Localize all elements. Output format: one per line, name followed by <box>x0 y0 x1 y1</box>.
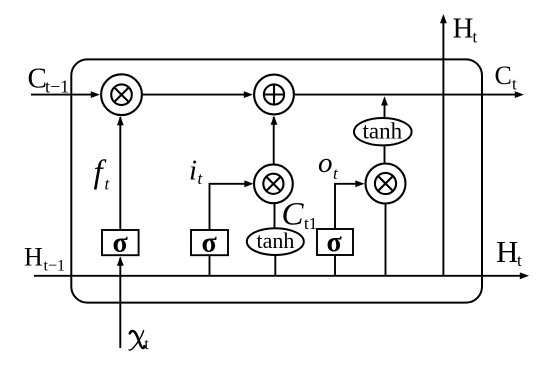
arrowhead up to C line <box>381 96 388 105</box>
wire H-line bottom <box>34 275 521 277</box>
arrowhead into multiply node X3 <box>355 180 364 187</box>
svg-text:t: t <box>333 164 339 183</box>
svg-text:t−1: t−1 <box>45 76 69 96</box>
svg-text:σ: σ <box>202 227 218 258</box>
arrowhead H t top <box>440 14 447 23</box>
arrowhead into add node bottom <box>271 116 278 125</box>
node x t label <box>130 331 145 348</box>
wire tanh low to H line <box>274 256 276 276</box>
svg-text:t−1: t−1 <box>44 258 65 275</box>
wire X3 up to tanh upper <box>384 145 386 163</box>
svg-text:H: H <box>453 12 474 44</box>
wire x t input vertical <box>119 258 121 349</box>
svg-text:t: t <box>517 251 522 270</box>
wire C-line output segment <box>295 94 516 96</box>
wire X2 up to add node <box>273 117 275 164</box>
multiply node X1 (forget gate multiply) <box>101 74 142 115</box>
wire output gate L path <box>335 184 356 229</box>
svg-text:C: C <box>28 63 47 95</box>
svg-text:t: t <box>105 175 111 194</box>
wire H t vertical output line <box>442 22 444 276</box>
wire C-line input segment <box>31 94 92 96</box>
svg-text:H: H <box>24 243 43 272</box>
tanh ellipse upper <box>354 118 412 145</box>
svg-text:t: t <box>144 336 149 353</box>
svg-text:t1: t1 <box>304 214 317 233</box>
wire C-line middle segment <box>143 94 245 96</box>
LSTM cell outer rounded box <box>71 59 482 302</box>
wire sigma3 to H line <box>334 256 336 276</box>
wire sigma2 to H line <box>209 256 211 276</box>
wire input gate L path <box>210 184 246 230</box>
wire tanh upper to C line <box>384 104 386 117</box>
arrowhead into multiply node X2 <box>244 180 253 187</box>
svg-text:σ: σ <box>113 227 129 258</box>
tanh ellipse lower (candidate) <box>247 228 304 255</box>
arrowhead into sigma box 1 <box>117 257 124 266</box>
arrowhead H t output right <box>520 272 529 279</box>
svg-text:C: C <box>282 197 305 233</box>
svg-text:o: o <box>318 147 333 179</box>
sigma box 3 (output gate) <box>317 229 353 255</box>
svg-text:tanh: tanh <box>363 119 403 144</box>
sigma box 2 (input gate) <box>191 230 228 255</box>
arrowhead C t output <box>515 91 524 98</box>
svg-text:t: t <box>512 75 517 94</box>
svg-text:C: C <box>495 61 512 90</box>
svg-text:t: t <box>473 28 478 47</box>
arrowhead into multiply node X1 <box>117 116 124 125</box>
add node (cell state sum) <box>254 75 294 115</box>
wire X3 down to H line <box>385 205 387 276</box>
multiply node X3 (output gate multiply) <box>366 164 406 204</box>
svg-text:H: H <box>496 234 518 269</box>
wire forget gate vertical f line <box>119 117 121 229</box>
svg-text:σ: σ <box>327 227 343 258</box>
svg-text:i: i <box>189 154 197 186</box>
arrowhead into multiply node <box>91 91 100 98</box>
multiply node X2 (input gate multiply) <box>254 164 293 203</box>
sigma box 1 (forget gate) <box>102 230 139 255</box>
wire X2 down to tanh low <box>274 203 276 229</box>
arrowhead into add node <box>244 91 253 98</box>
svg-text:t: t <box>198 169 204 188</box>
